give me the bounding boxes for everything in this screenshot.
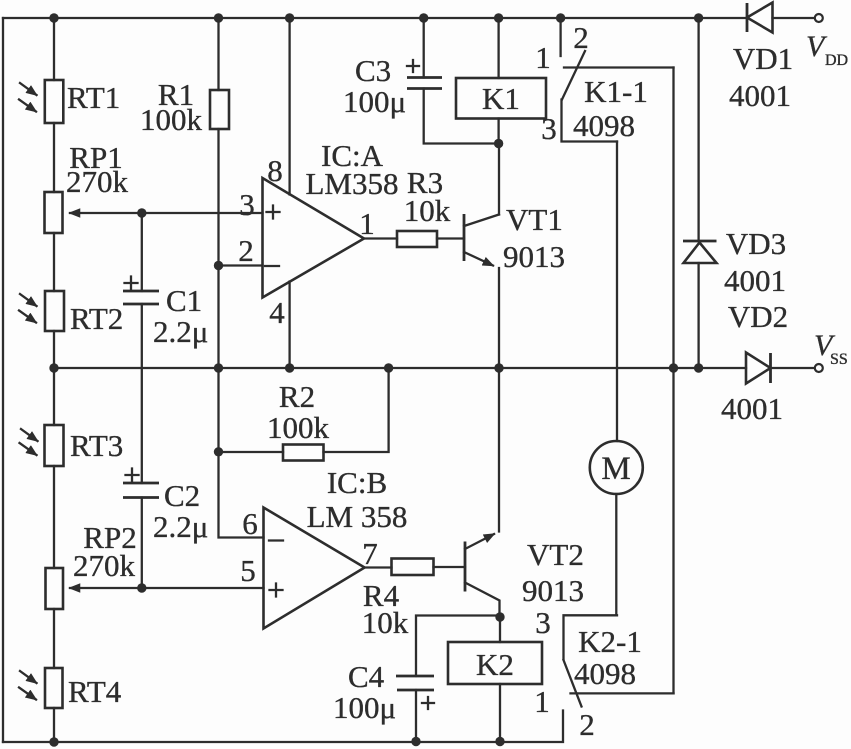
wire op-amp A output <box>364 237 397 239</box>
svg-text:K1: K1 <box>482 81 520 116</box>
svg-text:10k: 10k <box>362 605 409 640</box>
wire top rail right segment to VDD terminal <box>773 17 816 19</box>
svg-text:RT4: RT4 <box>68 674 122 709</box>
svg-text:270k: 270k <box>66 164 129 199</box>
wire op-amp B output <box>365 566 392 568</box>
svg-text:1: 1 <box>535 40 551 75</box>
capacitor C4 <box>416 616 500 742</box>
op-amp U2 IC:B <box>264 508 365 629</box>
svg-text:4001: 4001 <box>729 78 791 113</box>
diode VD1 <box>746 3 749 32</box>
svg-text:VT1: VT1 <box>506 202 563 237</box>
capacitor C2 <box>141 498 143 589</box>
svg-text:2.2μ: 2.2μ <box>153 509 208 544</box>
svg-text:C2: C2 <box>164 478 200 513</box>
svg-text:RT2: RT2 <box>70 301 123 336</box>
transistor Q2 VT2 <box>464 542 467 592</box>
junction dots top rail <box>49 13 58 22</box>
junction dots bottom rail <box>49 737 58 746</box>
svg-text:VD1: VD1 <box>733 41 793 76</box>
diode VD2 <box>746 353 771 384</box>
svg-text:8: 8 <box>267 153 283 188</box>
terminal VSS <box>815 364 823 372</box>
resistor R1 <box>217 18 219 90</box>
svg-text:9013: 9013 <box>522 573 584 608</box>
op-amp U1 IC:A <box>263 178 365 298</box>
svg-text:7: 7 <box>362 536 378 571</box>
potentiometer RP2 <box>46 568 64 609</box>
svg-text:SS: SS <box>830 351 848 368</box>
wire op-amp pin 2 <box>219 264 263 266</box>
svg-text:100μ: 100μ <box>333 690 396 725</box>
svg-text:RT1: RT1 <box>67 80 120 115</box>
svg-text:10k: 10k <box>404 193 451 228</box>
svg-text:4098: 4098 <box>574 656 636 691</box>
relay coil K2 <box>499 617 501 742</box>
capacitor C1 <box>141 213 143 483</box>
svg-text:100k: 100k <box>267 410 330 445</box>
junction dot node C3 / K1 / VT1 collector <box>494 139 503 148</box>
wire R3 to VT1 base <box>437 237 464 239</box>
svg-text:100k: 100k <box>140 102 203 137</box>
wire middle rail right segment to VSS terminal <box>771 367 816 369</box>
svg-text:C3: C3 <box>355 53 391 88</box>
svg-text:DD: DD <box>825 52 848 69</box>
wire R1 column down to pin 6 <box>219 129 264 538</box>
wire motor lower <box>615 494 617 615</box>
motor M <box>590 441 643 494</box>
transistor Q1 VT1 <box>463 214 466 261</box>
wire op-amp pin 4 <box>288 282 290 369</box>
wire top rail <box>3 17 746 19</box>
potentiometer RP1 <box>45 192 63 233</box>
junction dot node RP1 wiper / C1 <box>137 208 146 217</box>
capacitor C3 <box>424 18 499 144</box>
svg-text:VD2: VD2 <box>728 299 788 334</box>
junction dot node VT2 collector / C4 / K2 <box>495 612 504 621</box>
wire bottom rail with K2-1 stub riser <box>3 711 563 743</box>
wire motor upper <box>616 142 618 442</box>
svg-text:VT2: VT2 <box>527 537 584 572</box>
svg-text:R2: R2 <box>279 379 315 414</box>
resistor R4 <box>392 559 434 576</box>
svg-text:100μ: 100μ <box>343 84 406 119</box>
photoresistor RT2 <box>45 291 64 331</box>
svg-text:4001: 4001 <box>721 391 783 426</box>
wire left border vertical <box>2 18 4 742</box>
resistor R2 <box>219 451 284 453</box>
svg-text:4: 4 <box>269 295 285 330</box>
svg-text:2: 2 <box>579 707 595 742</box>
svg-text:K1-1: K1-1 <box>584 74 648 109</box>
svg-text:2: 2 <box>573 20 589 55</box>
svg-text:K2-1: K2-1 <box>578 624 642 659</box>
svg-text:2.2μ: 2.2μ <box>153 314 208 349</box>
svg-text:5: 5 <box>240 553 256 588</box>
svg-text:3: 3 <box>541 111 557 146</box>
svg-text:1: 1 <box>359 206 375 241</box>
svg-text:C4: C4 <box>348 659 385 694</box>
resistor R3 <box>397 231 437 247</box>
photoresistor RT4 <box>45 668 63 708</box>
svg-text:9013: 9013 <box>503 239 565 274</box>
svg-text:1: 1 <box>534 684 550 719</box>
svg-text:3: 3 <box>239 187 255 222</box>
wire RT column segments <box>53 18 55 742</box>
svg-text:M: M <box>601 451 630 487</box>
terminal VDD <box>815 14 823 22</box>
junction dot node RP2 wiper / C2 <box>137 583 146 592</box>
svg-text:3: 3 <box>535 605 551 640</box>
photoresistor RT1 <box>45 80 64 123</box>
diode VD3 <box>697 18 699 368</box>
svg-text:RT3: RT3 <box>70 428 123 463</box>
svg-text:VD3: VD3 <box>726 226 786 261</box>
relay contact K1-1 <box>559 18 561 56</box>
svg-text:LM 358: LM 358 <box>307 499 408 534</box>
junction dot node pin2 / R1 <box>214 261 223 270</box>
svg-text:IC:B: IC:B <box>327 465 387 500</box>
wire K1-1 tap down right side to K2-1 <box>672 68 674 694</box>
svg-text:4098: 4098 <box>573 108 635 143</box>
svg-text:6: 6 <box>242 506 258 541</box>
relay contact K2-1 <box>564 615 618 659</box>
relay coil K1 <box>497 18 499 144</box>
photoresistor RT3 <box>45 425 64 466</box>
wire R4 to VT2 base <box>434 566 466 568</box>
wire op-amp pin 8 <box>288 18 290 195</box>
junction dot node R2 / R1 column <box>214 447 223 456</box>
svg-text:K2: K2 <box>476 647 514 682</box>
svg-text:4001: 4001 <box>724 263 786 298</box>
svg-text:C1: C1 <box>166 283 202 318</box>
junction dots middle rail <box>49 363 58 372</box>
svg-text:LM358: LM358 <box>306 166 399 201</box>
wire middle VSS rail <box>54 367 746 369</box>
svg-text:2: 2 <box>238 233 254 268</box>
svg-text:270k: 270k <box>73 548 136 583</box>
